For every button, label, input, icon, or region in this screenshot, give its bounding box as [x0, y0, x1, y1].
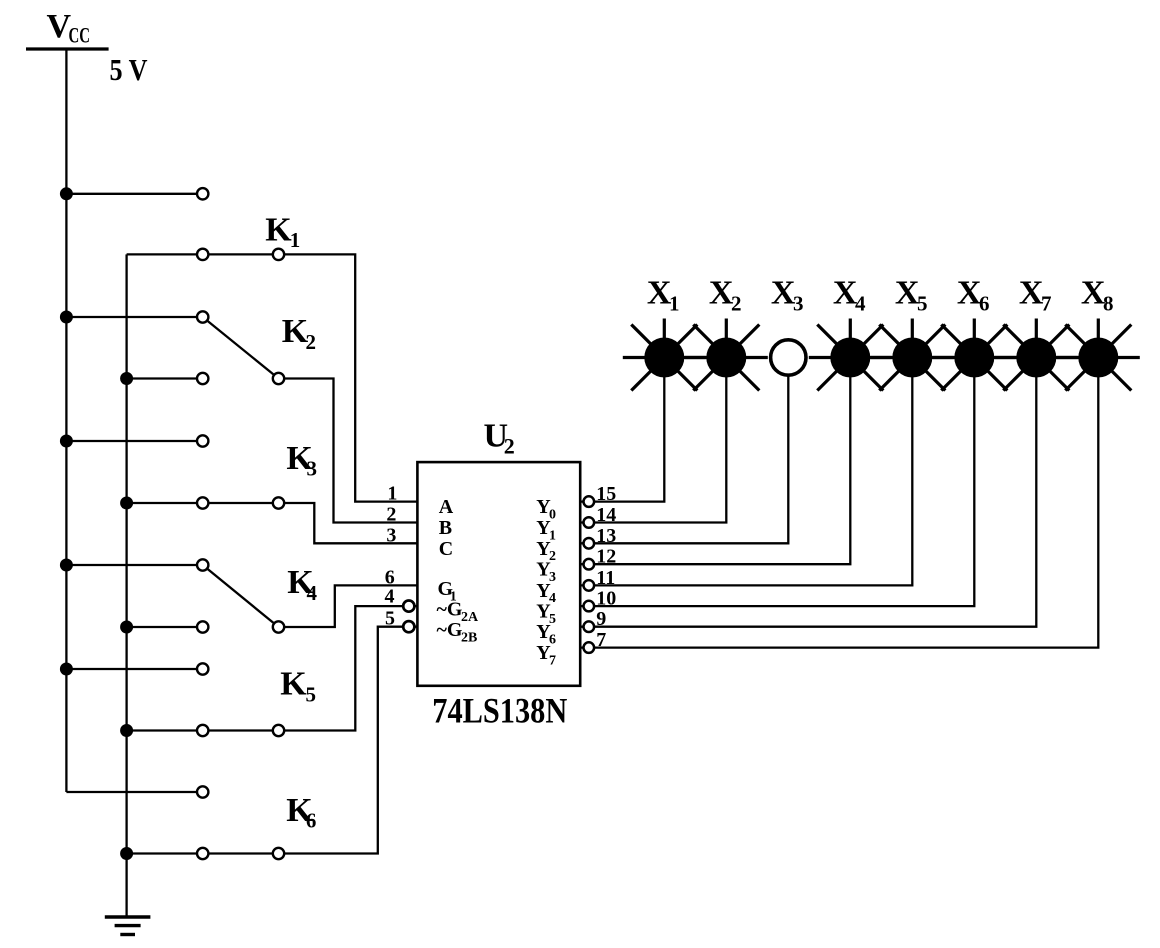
svg-text:1: 1	[669, 292, 680, 316]
ground	[105, 917, 151, 935]
junction GND bus at K6 lower row	[120, 847, 133, 860]
svg-text:1: 1	[387, 483, 397, 505]
svg-text:13: 13	[596, 525, 616, 547]
svg-text:5: 5	[306, 683, 317, 707]
wire VCC bus vertical	[65, 48, 67, 792]
inversion bubble pin 13 (Y2)	[584, 538, 595, 549]
svg-text:12: 12	[596, 546, 616, 568]
wire U2 Y7 (pin 7) to lamp X8	[579, 358, 1098, 648]
svg-text:K: K	[265, 211, 292, 248]
svg-text:11: 11	[596, 567, 615, 589]
wire K2 pole to U2 pin	[279, 379, 418, 523]
IC U2 body	[417, 462, 580, 686]
svg-text:4: 4	[855, 292, 866, 316]
switch K4 upper contact circle	[197, 559, 208, 570]
svg-text:7: 7	[1041, 292, 1052, 316]
svg-text:6: 6	[306, 808, 317, 832]
svg-text:2A: 2A	[461, 610, 479, 625]
wire VCC bus to K6 upper contact	[66, 791, 202, 793]
switch K1 upper contact circle	[197, 188, 208, 199]
inversion bubble pin 10 (Y5)	[584, 601, 595, 612]
lamp X1 (lit)	[623, 319, 706, 391]
junction VCC bus at K1 upper row	[60, 187, 73, 200]
switch K6 blade (closed to GND)	[203, 852, 279, 854]
switch K1 lower contact circle	[197, 249, 208, 260]
svg-text:3: 3	[793, 292, 804, 316]
wire GND bus to K4 lower contact	[127, 626, 203, 628]
switch K6 lower contact circle	[197, 848, 208, 859]
junction GND bus at K3 lower row	[120, 497, 133, 510]
wire GND bus vertical	[125, 254, 127, 917]
svg-text:5: 5	[917, 292, 928, 316]
junction VCC bus at K2 upper row	[60, 311, 73, 324]
svg-text:CC: CC	[69, 23, 91, 48]
svg-text:~G: ~G	[437, 599, 463, 621]
wire VCC bus to K4 upper contact	[66, 564, 202, 566]
switch K2 upper contact circle	[197, 311, 208, 322]
wire U2 Y5 (pin 10) to lamp X6	[579, 358, 974, 607]
svg-text:2: 2	[504, 434, 515, 459]
wire U2 Y0 (pin 15) to lamp X1	[579, 358, 664, 502]
junction GND bus at K4 lower row	[120, 621, 133, 634]
svg-text:3: 3	[307, 457, 318, 481]
switch K3 blade (closed to GND)	[203, 502, 279, 504]
inversion bubble pin 12 (Y3)	[584, 559, 595, 570]
svg-text:C: C	[439, 538, 453, 560]
junction VCC bus at K3 upper row	[60, 435, 73, 448]
inversion bubble pin 11 (Y4)	[584, 580, 595, 591]
switch K2 blade (thrown to VCC)	[203, 317, 279, 379]
svg-text:2: 2	[731, 292, 742, 316]
switch K4 pole circle	[273, 621, 284, 632]
svg-text:8: 8	[1103, 292, 1114, 316]
svg-text:2B: 2B	[461, 631, 477, 646]
power VCC symbol	[26, 47, 109, 50]
wire K4 pole to U2 pin	[279, 585, 418, 627]
switch K2 lower contact circle	[197, 373, 208, 384]
switch K3 lower contact circle	[197, 497, 208, 508]
wire U2 Y4 (pin 11) to lamp X5	[579, 358, 912, 586]
wire GND bus to K1 lower contact	[127, 253, 203, 255]
inversion bubble pin 7 (Y7)	[584, 642, 595, 653]
wire GND bus to K3 lower contact	[127, 502, 203, 504]
svg-text:2: 2	[386, 504, 396, 526]
wire VCC bus to K5 upper contact	[66, 668, 202, 670]
svg-text:4: 4	[385, 586, 395, 608]
wire U2 Y1 (pin 14) to lamp X2	[579, 358, 726, 523]
svg-text:3: 3	[386, 524, 396, 546]
svg-text:A: A	[439, 496, 454, 518]
wire K5 pole to U2 pin	[279, 606, 418, 730]
lamp X8 (lit)	[1057, 319, 1140, 391]
svg-text:7: 7	[549, 653, 556, 668]
lamp X7 (lit)	[995, 319, 1078, 391]
junction GND bus at K2 lower row	[120, 372, 133, 385]
lamp X5 (lit)	[871, 319, 954, 391]
lamp X3 (off)	[771, 340, 806, 375]
svg-text:15: 15	[596, 483, 616, 505]
switch K4 lower contact circle	[197, 621, 208, 632]
switch K5 upper contact circle	[197, 663, 208, 674]
svg-text:K: K	[280, 666, 307, 703]
wire U2 Y2 (pin 13) to lamp X3	[579, 358, 788, 544]
wire VCC bus to K1 upper contact	[66, 193, 202, 195]
wire GND bus to K5 lower contact	[127, 729, 203, 731]
lamp X6 (lit)	[933, 319, 1016, 391]
wire VCC bus to K3 upper contact	[66, 440, 202, 442]
wire U2 Y3 (pin 12) to lamp X4	[579, 358, 850, 565]
wire VCC bus to K2 upper contact	[66, 316, 202, 318]
svg-text:5: 5	[385, 608, 395, 630]
switch K1 pole circle	[273, 249, 284, 260]
wire K6 pole to U2 pin	[279, 627, 418, 854]
switch K2 pole circle	[273, 373, 284, 384]
svg-text:74LS138N: 74LS138N	[432, 691, 567, 731]
inversion bubble pin 5 (~G2B)	[403, 621, 414, 632]
svg-text:1: 1	[290, 228, 301, 252]
switch K5 pole circle	[273, 725, 284, 736]
wire K1 pole to U2 pin	[279, 254, 418, 501]
switch K5 blade (closed to GND)	[203, 729, 279, 731]
switch K5 lower contact circle	[197, 725, 208, 736]
switch K3 pole circle	[273, 497, 284, 508]
inversion bubble pin 15 (Y0)	[584, 496, 595, 507]
svg-text:9: 9	[596, 608, 606, 630]
svg-text:14: 14	[596, 504, 616, 526]
switch K6 pole circle	[273, 848, 284, 859]
wire GND bus to K6 lower contact	[127, 852, 203, 854]
switch K1 blade (closed to GND)	[203, 253, 279, 255]
switch K3 upper contact circle	[197, 435, 208, 446]
lamp X4 (lit)	[809, 319, 892, 391]
inversion bubble pin 4 (~G2A)	[403, 601, 414, 612]
svg-text:~G: ~G	[437, 619, 463, 641]
svg-text:B: B	[439, 517, 452, 539]
svg-text:5 V: 5 V	[110, 52, 149, 87]
wire GND bus to K2 lower contact	[127, 377, 203, 379]
junction VCC bus at K4 upper row	[60, 559, 73, 572]
switch K6 upper contact circle	[197, 786, 208, 797]
svg-text:2: 2	[306, 330, 317, 354]
lamp X2 (lit)	[685, 319, 768, 391]
inversion bubble pin 14 (Y1)	[584, 517, 595, 528]
wire U2 Y6 (pin 9) to lamp X7	[579, 358, 1036, 627]
svg-text:10: 10	[596, 588, 616, 610]
junction GND bus at K5 lower row	[120, 724, 133, 737]
svg-text:4: 4	[307, 581, 318, 605]
wire K3 pole to U2 pin	[279, 503, 418, 543]
svg-text:7: 7	[596, 629, 606, 651]
inversion bubble pin 9 (Y6)	[584, 621, 595, 632]
junction VCC bus at K5 upper row	[60, 663, 73, 676]
svg-text:6: 6	[979, 292, 990, 316]
switch K4 blade (thrown to VCC)	[203, 565, 279, 627]
